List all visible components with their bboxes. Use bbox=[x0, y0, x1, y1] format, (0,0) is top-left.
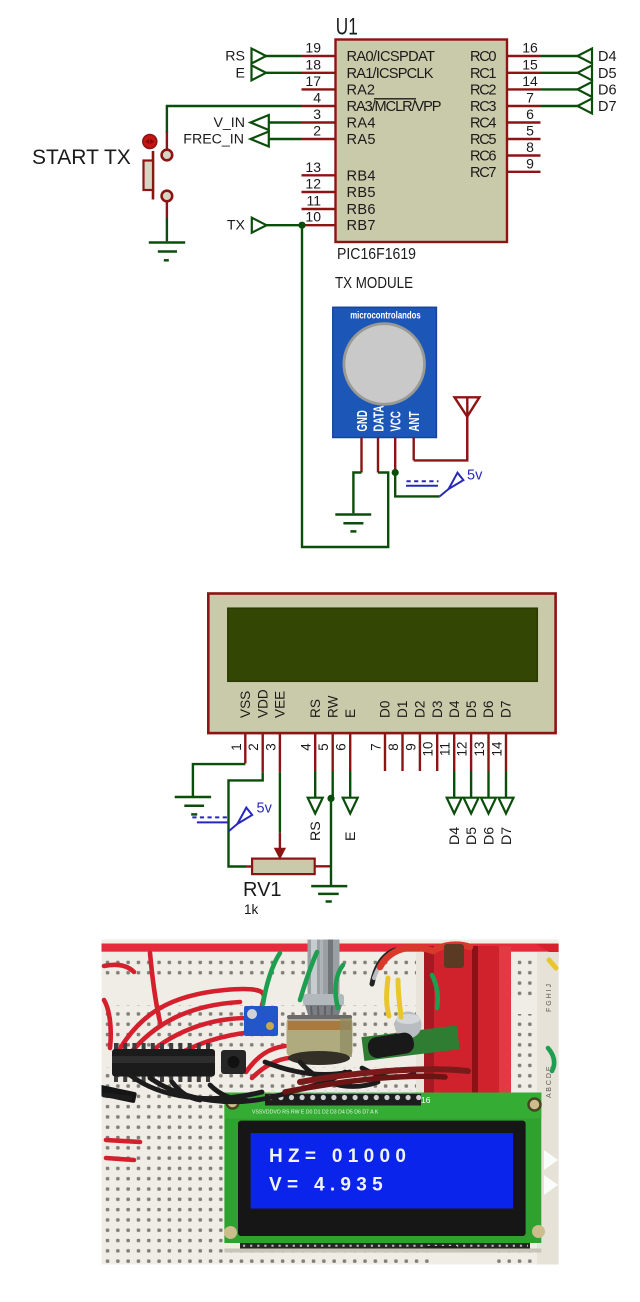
svg-text:9: 9 bbox=[403, 743, 418, 750]
svg-text:D7: D7 bbox=[598, 99, 617, 115]
svg-text:U1: U1 bbox=[336, 14, 358, 41]
svg-text:9: 9 bbox=[526, 155, 534, 171]
svg-text:RC5: RC5 bbox=[470, 132, 497, 148]
svg-text:D4: D4 bbox=[447, 827, 463, 845]
svg-text:4: 4 bbox=[313, 90, 321, 106]
svg-text:VSS: VSS bbox=[238, 691, 253, 718]
svg-text:5v: 5v bbox=[257, 801, 273, 817]
svg-text:RV1: RV1 bbox=[243, 879, 282, 901]
svg-text:D0: D0 bbox=[378, 700, 393, 718]
svg-text:RC0: RC0 bbox=[470, 49, 497, 65]
svg-text:RA4: RA4 bbox=[347, 116, 376, 132]
svg-text:D5: D5 bbox=[464, 827, 480, 845]
svg-text:RW: RW bbox=[325, 695, 340, 718]
svg-text:3: 3 bbox=[313, 106, 321, 122]
svg-text:V_IN: V_IN bbox=[213, 115, 245, 131]
svg-text:16: 16 bbox=[522, 40, 538, 56]
svg-text:D1: D1 bbox=[395, 701, 410, 718]
svg-text:RS: RS bbox=[225, 49, 245, 65]
svg-text:PIC16F1619: PIC16F1619 bbox=[337, 246, 416, 263]
svg-text:10: 10 bbox=[305, 209, 321, 225]
svg-text:11: 11 bbox=[438, 742, 453, 756]
svg-text:VSSVDDVO RS RW E D0 D1 D2 D3: VSSVDDVO RS RW E D0 D1 D2 D3 D4 D5 D6 D7… bbox=[252, 1110, 379, 1116]
svg-text:7: 7 bbox=[526, 90, 534, 106]
svg-text:RS: RS bbox=[308, 699, 323, 718]
svg-text:D7: D7 bbox=[499, 701, 514, 718]
svg-text:RA2: RA2 bbox=[347, 82, 376, 98]
svg-text:4: 4 bbox=[299, 743, 314, 751]
svg-text:3: 3 bbox=[263, 743, 278, 750]
svg-text:D6: D6 bbox=[598, 82, 617, 98]
svg-text:TX MODULE: TX MODULE bbox=[335, 275, 413, 292]
svg-text:HZ= 01000: HZ= 01000 bbox=[269, 1146, 411, 1167]
svg-text:RA1/ICSPCLK: RA1/ICSPCLK bbox=[347, 66, 434, 82]
svg-text:DATA: DATA bbox=[370, 406, 387, 432]
svg-text:1: 1 bbox=[229, 743, 244, 750]
svg-text:RC6: RC6 bbox=[470, 149, 497, 165]
svg-text:RA0/ICSPDAT: RA0/ICSPDAT bbox=[347, 49, 436, 65]
svg-text:RB5: RB5 bbox=[347, 185, 376, 201]
svg-text:15: 15 bbox=[522, 56, 538, 72]
svg-text:RB6: RB6 bbox=[347, 202, 376, 218]
svg-text:14: 14 bbox=[490, 741, 505, 756]
svg-text:VEE: VEE bbox=[273, 691, 288, 718]
svg-text:RC2: RC2 bbox=[470, 82, 497, 98]
svg-text:D3: D3 bbox=[430, 701, 445, 718]
svg-text:D4: D4 bbox=[447, 700, 462, 718]
svg-text:1k: 1k bbox=[244, 902, 259, 917]
svg-text:ANT: ANT bbox=[406, 411, 423, 431]
svg-text:11: 11 bbox=[306, 193, 321, 209]
svg-text:E: E bbox=[236, 66, 245, 82]
svg-text:E: E bbox=[343, 832, 359, 841]
svg-text:10: 10 bbox=[421, 742, 436, 757]
svg-text:VCC: VCC bbox=[387, 411, 404, 431]
svg-text:6: 6 bbox=[334, 743, 349, 750]
svg-text:13: 13 bbox=[305, 159, 321, 175]
svg-text:GND: GND bbox=[354, 410, 371, 431]
svg-text:D7: D7 bbox=[499, 827, 515, 845]
svg-text:TX: TX bbox=[227, 218, 246, 234]
svg-text:5: 5 bbox=[526, 123, 534, 139]
svg-text:D6: D6 bbox=[481, 827, 497, 845]
svg-text:RC3: RC3 bbox=[470, 99, 497, 115]
svg-text:12: 12 bbox=[455, 742, 470, 757]
svg-text:12: 12 bbox=[305, 176, 321, 192]
svg-text:14: 14 bbox=[522, 73, 538, 89]
svg-text:E: E bbox=[343, 709, 358, 718]
svg-text:5: 5 bbox=[316, 743, 331, 750]
svg-text:RC7: RC7 bbox=[470, 165, 497, 181]
svg-text:13: 13 bbox=[472, 742, 487, 757]
svg-text:D5: D5 bbox=[464, 701, 479, 718]
svg-text:RB7: RB7 bbox=[347, 218, 376, 234]
svg-text:2: 2 bbox=[246, 743, 261, 750]
svg-text:18: 18 bbox=[305, 56, 321, 72]
svg-text:D6: D6 bbox=[481, 701, 496, 718]
svg-text:RC4: RC4 bbox=[470, 116, 497, 132]
svg-text:6: 6 bbox=[526, 106, 534, 122]
svg-text:RB4: RB4 bbox=[347, 168, 376, 184]
svg-text:F G H I J: F G H I J bbox=[546, 984, 553, 1012]
svg-text:D2: D2 bbox=[413, 701, 428, 718]
svg-text:RA3/MCLR/VPP: RA3/MCLR/VPP bbox=[347, 99, 442, 115]
svg-text:2: 2 bbox=[313, 123, 321, 139]
svg-text:D4: D4 bbox=[598, 49, 617, 65]
svg-text:17: 17 bbox=[305, 73, 321, 89]
svg-text:16: 16 bbox=[421, 1095, 431, 1105]
svg-text:microcontrolandos: microcontrolandos bbox=[350, 310, 421, 322]
svg-text:8: 8 bbox=[386, 743, 401, 750]
svg-text:RS: RS bbox=[308, 821, 324, 841]
svg-text:START TX: START TX bbox=[32, 146, 131, 169]
svg-text:8: 8 bbox=[526, 139, 534, 155]
svg-text:FREC_IN: FREC_IN bbox=[183, 132, 244, 148]
svg-text:19: 19 bbox=[305, 40, 321, 56]
svg-text:5v: 5v bbox=[467, 468, 483, 484]
svg-text:D5: D5 bbox=[598, 66, 617, 82]
svg-text:7: 7 bbox=[369, 743, 384, 750]
svg-text:VDD: VDD bbox=[255, 689, 270, 718]
svg-text:RC1: RC1 bbox=[470, 66, 497, 82]
svg-text:RA5: RA5 bbox=[347, 132, 376, 148]
svg-text:V= 4.935: V= 4.935 bbox=[269, 1175, 388, 1196]
